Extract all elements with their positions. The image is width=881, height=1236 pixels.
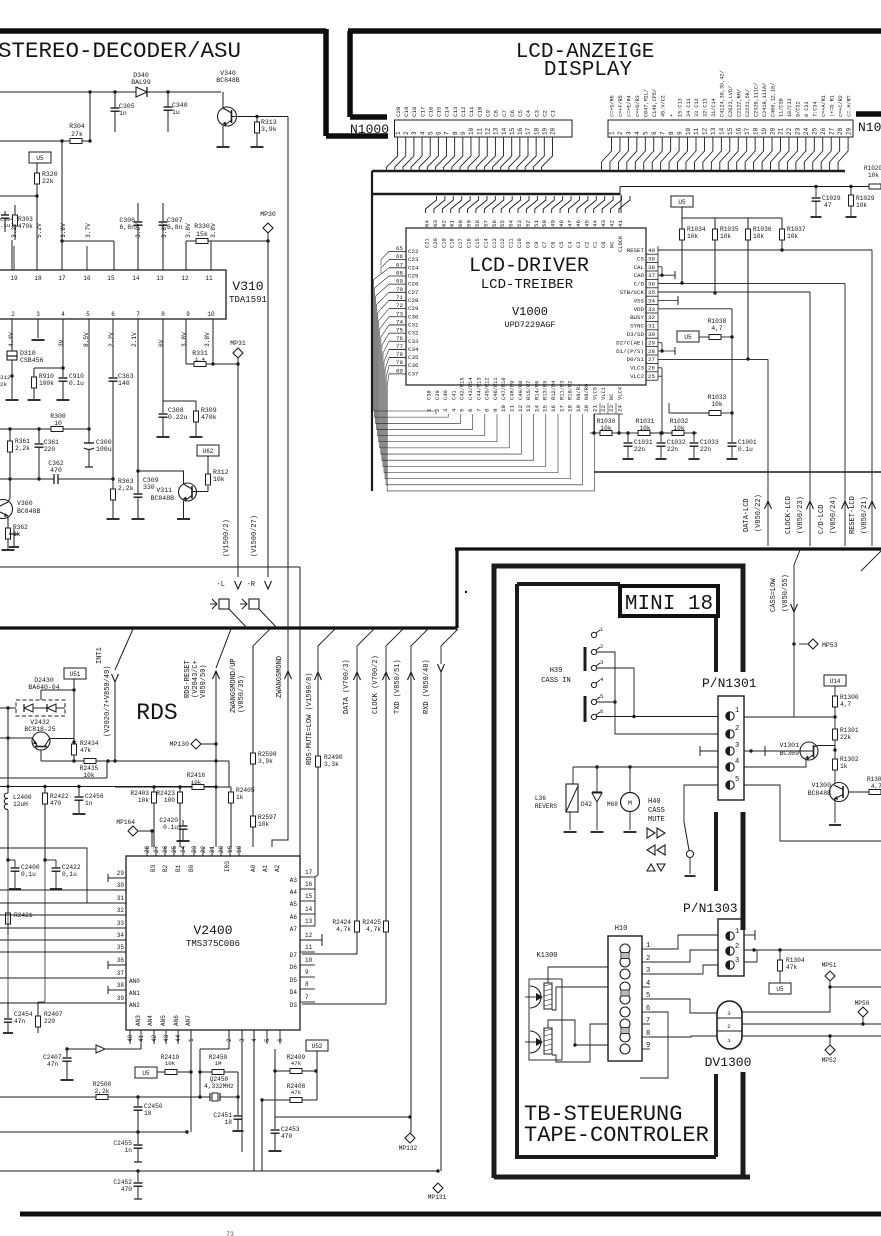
svg-text:C2454: C2454	[14, 1011, 33, 1018]
svg-text:AN7: AN7	[185, 1015, 192, 1026]
svg-text:R330: R330	[194, 223, 210, 230]
svg-text:c=+A/R1: c=+A/R1	[821, 95, 827, 117]
svg-text:24: 24	[180, 845, 187, 853]
svg-text:67: 67	[396, 261, 403, 268]
svg-text:C6: C6	[509, 110, 516, 117]
wire pin10 vertical	[212, 319, 214, 364]
svg-text:2,2k: 2,2k	[15, 445, 30, 452]
svg-text:NC: NC	[609, 394, 615, 400]
svg-text:38: 38	[648, 264, 655, 271]
svg-text:4,7k: 4,7k	[336, 926, 351, 933]
svg-text:4,7k: 4,7k	[366, 926, 381, 933]
resistor R2405 1k	[230, 787, 232, 792]
ground R363	[107, 518, 120, 520]
svg-text:RDS-RESET: RDS-RESET	[184, 660, 192, 698]
resistor R331 1.4	[186, 363, 194, 365]
wire U51 to D2430 junction	[73, 679, 75, 761]
resistor R2403 10k	[153, 787, 155, 792]
svg-text:18: 18	[34, 275, 42, 282]
wire H10 pin6 net	[640, 1012, 668, 1078]
wire pin12 stub	[300, 939, 322, 941]
svg-text:64: 64	[424, 220, 431, 227]
wire H10 pin2 to P/N1303 pin2	[650, 950, 718, 962]
svg-text:ZWANGSMOND/UP: ZWANGSMOND/UP	[230, 658, 238, 713]
svg-text:58: 58	[474, 220, 481, 227]
resistor R910 100k	[33, 368, 35, 377]
U5 box above R1034	[671, 196, 693, 207]
svg-text:MP31: MP31	[230, 340, 246, 347]
svg-text:11: 11	[205, 275, 213, 282]
svg-text:C13: C13	[452, 106, 459, 117]
svg-text:22n: 22n	[667, 446, 678, 453]
svg-text:0,1u: 0,1u	[62, 871, 77, 878]
svg-text:C305: C305	[119, 103, 135, 110]
svg-text:C11: C11	[509, 238, 515, 248]
tape symbol play	[647, 828, 655, 838]
svg-text:R1300: R1300	[840, 694, 859, 701]
svg-text:IRG: IRG	[224, 861, 231, 872]
wire fan N1000-1 to LCD box	[387, 137, 398, 171]
svg-text:NC: NC	[610, 242, 616, 248]
wire MP30 net vertical x=268 down	[267, 241, 269, 577]
svg-text:19: 19	[227, 845, 234, 853]
wire pin19 vertical	[11, 240, 13, 270]
MINI18 inner border	[517, 582, 620, 586]
ground C308	[157, 436, 170, 438]
svg-text:5: 5	[459, 408, 466, 412]
svg-text:11/C30: 11/C30	[779, 98, 785, 117]
H39 contact bar 2	[584, 696, 587, 722]
svg-text:C31: C31	[408, 321, 419, 328]
U51 box	[64, 668, 86, 679]
svg-text:10k: 10k	[787, 233, 798, 240]
svg-text:220: 220	[44, 1018, 55, 1025]
wire P/N1303 pin2 right net	[744, 949, 881, 951]
svg-text:79: 79	[396, 359, 403, 366]
wire: section divider horizontal left	[0, 626, 457, 629]
svg-text:R14/R6: R14/R6	[534, 381, 540, 400]
svg-text:MP131: MP131	[428, 1194, 447, 1201]
svg-text:B2: B2	[162, 864, 169, 872]
svg-text:33: 33	[117, 920, 125, 927]
svg-text:U5: U5	[776, 986, 784, 993]
svg-text:C2453: C2453	[281, 1126, 300, 1133]
wire main horizontal y=92	[0, 91, 221, 93]
svg-text:14: 14	[305, 906, 313, 913]
svg-text:3.8V: 3.8V	[204, 332, 211, 347]
resistor R312 10k	[207, 456, 209, 474]
U52 box	[306, 1040, 328, 1051]
svg-text:C48/R9: C48/R9	[510, 381, 516, 400]
svg-text:47k: 47k	[80, 747, 91, 754]
wire V340 emitter to ground	[222, 126, 224, 146]
resistor R1304 47k	[779, 950, 781, 960]
svg-text:C19: C19	[403, 106, 410, 117]
resistor R2423 100	[179, 787, 181, 792]
capacitor C308 0.22u	[162, 401, 164, 413]
svg-text:c=+G/R6: c=+G/R6	[610, 95, 616, 117]
svg-text:R2416: R2416	[187, 772, 206, 779]
wire crystal verticals	[228, 1030, 230, 1049]
U5 box top-left	[29, 152, 51, 163]
svg-text:C2221,5K/: C2221,5K/	[745, 89, 751, 117]
svg-text:1n: 1n	[125, 1147, 133, 1154]
capacitor C1001 0.1u	[731, 413, 733, 442]
svg-text:V340: V340	[220, 70, 236, 77]
wire H39 pin2 to P/N1301 pin2	[597, 652, 719, 734]
svg-text:B0: B0	[188, 864, 195, 872]
svg-text:16: 16	[517, 127, 524, 135]
svg-text:0.22u: 0.22u	[168, 414, 188, 421]
svg-text:1: 1	[646, 942, 650, 950]
svg-text:5: 5	[264, 1038, 271, 1042]
wire pin3 stub ground	[37, 319, 39, 338]
capacitor C363 140 on pin6 net	[112, 319, 114, 377]
svg-text:R2434: R2434	[80, 740, 99, 747]
svg-text:U5: U5	[678, 199, 686, 206]
svg-text:R2435: R2435	[80, 765, 99, 772]
svg-text:5: 5	[643, 131, 650, 135]
transistor V311 BC848B	[179, 483, 197, 501]
svg-text:(V850/24): (V850/24)	[830, 496, 838, 534]
svg-text:68: 68	[396, 269, 403, 276]
svg-text:4: 4	[634, 131, 641, 135]
svg-text:DV1300: DV1300	[705, 1055, 752, 1070]
svg-text:TAPE-CONTROLER: TAPE-CONTROLER	[524, 1123, 709, 1148]
svg-text:23: 23	[795, 127, 802, 135]
svg-text:1: 1	[609, 131, 616, 135]
svg-text:7: 7	[444, 131, 451, 135]
svg-text:C0: C0	[601, 242, 607, 248]
svg-text:470k: 470k	[18, 223, 33, 230]
svg-text:C6: C6	[551, 242, 557, 248]
node junction at 90,92	[88, 90, 91, 93]
U14 box	[824, 675, 846, 686]
K1300 switch 1	[530, 986, 541, 1008]
svg-text:DATA-LCD: DATA-LCD	[743, 498, 751, 532]
wire thin bus y=183 right	[620, 186, 881, 188]
wire CLOCK pin to bus	[620, 194, 622, 213]
wire resistor top bus	[681, 207, 683, 218]
wire: LCD section border stub	[350, 114, 387, 120]
svg-text:17: 17	[305, 869, 313, 876]
resistor R1301 22k	[834, 717, 836, 729]
capacitor C2407 47n	[65, 1047, 68, 1050]
V1000 bottom right pins 21-24 ladder	[599, 403, 601, 414]
svg-text:7: 7	[475, 408, 482, 412]
svg-text:470: 470	[121, 1186, 132, 1193]
svg-text:N10: N10	[858, 120, 881, 135]
wire V1301 collector to R1301 junction	[818, 745, 835, 747]
svg-text:C2320,111C/: C2320,111C/	[753, 83, 759, 117]
svg-text:7: 7	[305, 994, 309, 1001]
svg-text:8: 8	[452, 131, 459, 135]
wire horizontal y=786 supply	[0, 785, 310, 787]
wire D0/S1 net	[658, 358, 768, 360]
svg-text:VLC3: VLC3	[630, 365, 644, 372]
svg-text:37: 37	[648, 272, 655, 279]
svg-text:CASS: CASS	[648, 807, 665, 815]
svg-text:26: 26	[820, 127, 827, 135]
svg-text:11: 11	[305, 944, 313, 951]
svg-text:11: 11	[509, 405, 516, 412]
svg-text:R1035: R1035	[720, 226, 739, 233]
wire K1300 to lower loop	[575, 1045, 640, 1078]
ground R309	[190, 436, 203, 438]
wire CASS-LOW vertical to MP53 and P/N1301	[793, 640, 795, 717]
svg-text:D5: D5	[290, 977, 298, 984]
svg-text:25: 25	[171, 845, 178, 853]
svg-text:2: 2	[727, 1023, 731, 1030]
svg-text:3.8V: 3.8V	[60, 223, 67, 238]
svg-text:C20: C20	[395, 106, 402, 117]
svg-text:1: 1	[426, 408, 433, 412]
svg-text:C307: C307	[167, 217, 183, 224]
resistor R1035 10k	[714, 218, 716, 229]
resistor R313 3.9k	[255, 115, 258, 118]
wire VSS stub	[658, 299, 678, 301]
svg-text:32: 32	[648, 314, 655, 321]
test point MP52	[829, 1036, 831, 1045]
svg-text:N8/R0: N8/R0	[584, 384, 590, 400]
svg-text:3.7V: 3.7V	[85, 223, 92, 238]
svg-text:3,9k: 3,9k	[261, 126, 277, 133]
wire pin4 net down to R910/C910	[62, 319, 64, 368]
svg-text:10k: 10k	[213, 476, 225, 483]
svg-text:16: 16	[305, 881, 313, 888]
svg-text:9: 9	[676, 131, 683, 135]
svg-text:18: 18	[567, 405, 574, 412]
svg-text:33: 33	[648, 306, 655, 313]
svg-text:40: 40	[648, 247, 655, 254]
svg-text:312: 312	[0, 374, 11, 381]
wire left verticals down to C2454 R2407	[7, 860, 9, 1002]
wire pin3 pin4 verticals	[241, 1030, 243, 1152]
resistor R2598 3.9k	[251, 753, 256, 764]
svg-text:6,8n: 6,8n	[119, 224, 135, 231]
svg-text:34: 34	[117, 932, 125, 939]
svg-text:7: 7	[659, 131, 666, 135]
svg-text:AN6: AN6	[173, 1015, 180, 1026]
svg-text:R1037: R1037	[787, 226, 806, 233]
wire diag from R connector to bus	[259, 609, 277, 628]
svg-text:VLC4: VLC4	[617, 387, 623, 400]
wire diag stubs under bus	[253, 629, 270, 646]
capacitor C1033 22n	[693, 433, 695, 442]
wire RDS-RESET down from R2416 junction	[215, 787, 217, 847]
resistor R303 470k	[14, 205, 16, 215]
svg-text:20: 20	[769, 127, 776, 135]
svg-text:RDS-MUTE=LOW (V1590/8): RDS-MUTE=LOW (V1590/8)	[306, 673, 314, 765]
svg-text:BC848B: BC848B	[17, 508, 41, 515]
svg-text:1k: 1k	[840, 763, 848, 770]
wire V1300 emitter ground	[834, 799, 836, 823]
svg-text:39: 39	[117, 995, 125, 1002]
capacitor C305 1n	[114, 92, 116, 108]
ground R313	[251, 146, 264, 148]
svg-text:-L: -L	[217, 581, 225, 589]
MINI18 label box	[620, 586, 718, 616]
svg-text:D2/C(AE): D2/C(AE)	[616, 339, 644, 346]
svg-text:C910: C910	[69, 373, 84, 380]
wire DV1300 pin1 net	[742, 1035, 881, 1037]
svg-text:C2450: C2450	[144, 1103, 163, 1110]
svg-text:C12: C12	[460, 106, 467, 117]
svg-text:12: 12	[181, 275, 189, 282]
test point MP131	[440, 1171, 442, 1183]
svg-text:47k: 47k	[291, 1089, 302, 1096]
H10 contacts	[620, 944, 630, 954]
svg-text:C34: C34	[408, 346, 419, 353]
svg-text:C18: C18	[450, 238, 456, 248]
svg-text:18: 18	[533, 127, 540, 135]
wire R1300 junction	[794, 716, 835, 718]
svg-text:4: 4	[419, 131, 426, 135]
svg-text:K1300: K1300	[536, 952, 557, 960]
svg-text:C20: C20	[433, 238, 439, 248]
svg-text:C14: C14	[483, 238, 489, 248]
wire pin5 vertical to C300	[88, 319, 90, 443]
svg-text:3.8V: 3.8V	[135, 223, 142, 238]
svg-text:R1034: R1034	[687, 226, 706, 233]
svg-text:(V1500/27): (V1500/27)	[251, 515, 259, 557]
svg-text:4: 4	[646, 980, 650, 988]
svg-text:31/C14: 31/C14	[711, 98, 717, 117]
svg-text:C2400: C2400	[21, 864, 40, 871]
svg-text:D4: D4	[290, 989, 298, 996]
resistor R1034 10k	[681, 218, 683, 229]
svg-text:22n: 22n	[700, 446, 711, 453]
svg-text:25: 25	[812, 127, 819, 135]
svg-text:H39: H39	[550, 667, 563, 675]
svg-text:34: 34	[648, 297, 655, 304]
wire H39 pin5 join	[597, 701, 616, 703]
wire P/N1303 pin3 elbow	[744, 950, 757, 962]
op-amp IC V310 TDA1591 body	[0, 270, 226, 319]
svg-text:C1031: C1031	[634, 439, 653, 446]
wire: right border stub over N10	[856, 111, 881, 117]
MINI18 outer border	[494, 566, 743, 672]
svg-text:4: 4	[735, 758, 739, 766]
svg-text:C16: C16	[467, 238, 473, 248]
tiny dot artifact	[465, 591, 467, 593]
svg-text:C33: C33	[408, 338, 419, 345]
svg-text:REVERS: REVERS	[535, 803, 558, 810]
wire y=1117 to MP132	[275, 1116, 410, 1118]
svg-text:R1038: R1038	[708, 318, 727, 325]
svg-text:C5: C5	[559, 242, 565, 248]
svg-text:1u: 1u	[172, 109, 180, 116]
svg-text:UPD7229AGF: UPD7229AGF	[504, 320, 555, 330]
svg-text:C3: C3	[576, 242, 582, 248]
wire RDS-RESET diagonal and arrow	[216, 629, 231, 668]
svg-text:3.8V: 3.8V	[181, 332, 188, 347]
wire VDD net down	[658, 308, 732, 310]
svg-text:C2407: C2407	[43, 1054, 62, 1061]
svg-text:c=+D/R3: c=+D/R3	[635, 95, 641, 117]
svg-text:10: 10	[500, 405, 507, 412]
svg-text:2,2k: 2,2k	[95, 1088, 110, 1095]
svg-text:23: 23	[608, 405, 615, 412]
V1000 chip top pin ladder	[420, 213, 422, 228]
microcontroller V2400 TMS375C006 body	[126, 856, 300, 1030]
capacitor C307 6.8n	[162, 203, 164, 222]
resistor R2597 10k	[251, 816, 256, 827]
capacitor C309 330	[137, 490, 139, 494]
svg-text:10: 10	[685, 127, 692, 135]
svg-text:C47/R10: C47/R10	[501, 377, 507, 400]
svg-text:45.V/C2: 45.V/C2	[660, 95, 666, 117]
svg-text:(V850/22): (V850/22)	[755, 494, 763, 532]
svg-text:2: 2	[11, 311, 15, 318]
svg-text:D340: D340	[133, 72, 149, 79]
svg-text:C23: C23	[408, 256, 419, 263]
svg-text:46: 46	[575, 220, 582, 227]
svg-text:10/C31: 10/C31	[787, 98, 793, 117]
svg-text:C406,12,18/: C406,12,18/	[770, 83, 776, 117]
svg-text:R1302: R1302	[840, 756, 859, 763]
svg-text:6: 6	[111, 311, 115, 318]
svg-text:R1303: R1303	[867, 776, 881, 783]
wire K1300 wiring	[548, 967, 608, 983]
wire diode to V340 base	[147, 91, 221, 93]
svg-text:13: 13	[525, 405, 532, 412]
resistor R309 470k	[195, 401, 197, 411]
wire pin7 vertical long	[137, 319, 139, 490]
svg-text:10: 10	[54, 420, 62, 427]
H39 contact bar 1	[584, 647, 587, 671]
capacitor C1031 22n	[627, 433, 629, 442]
svg-text:INT1: INT1	[96, 647, 104, 664]
svg-text:2: 2	[434, 408, 441, 412]
svg-text:15: 15	[107, 275, 115, 282]
svg-text:C1: C1	[593, 242, 599, 248]
capacitor C340 1u	[167, 92, 169, 107]
svg-text:36: 36	[648, 281, 655, 288]
svg-text:C4: C4	[525, 110, 532, 117]
svg-text:MP130: MP130	[169, 741, 189, 748]
svg-text:L36: L36	[535, 795, 546, 802]
svg-text:5: 5	[86, 311, 90, 318]
svg-text:14: 14	[132, 275, 140, 282]
svg-text:c=+E/R4: c=+E/R4	[627, 95, 633, 117]
svg-text:27k: 27k	[71, 131, 83, 138]
svg-text:470: 470	[50, 800, 61, 807]
svg-text:12: 12	[517, 405, 524, 412]
capacitor C2452 470	[137, 1171, 139, 1182]
svg-text:AN0: AN0	[129, 978, 140, 985]
wire upper box line y=567	[0, 566, 300, 568]
svg-text:C340: C340	[172, 102, 188, 109]
wire RDS-MUTE arrow vertical	[317, 646, 319, 672]
svg-text:5.2V: 5.2V	[36, 223, 43, 238]
svg-text:VDD: VDD	[634, 306, 645, 313]
svg-text:L2400: L2400	[13, 794, 32, 801]
svg-text:Q2450: Q2450	[210, 1076, 229, 1083]
tape symbol eject	[647, 864, 655, 871]
resistor R362 1k	[7, 516, 9, 528]
svg-text:D3/SD: D3/SD	[627, 331, 645, 338]
svg-text:R2597: R2597	[258, 814, 277, 821]
svg-text:CLOCK: CLOCK	[618, 235, 624, 252]
svg-text:6: 6	[651, 131, 658, 135]
svg-text:3: 3	[626, 131, 633, 135]
svg-text:3,3k: 3,3k	[324, 761, 339, 768]
svg-text:MUTE: MUTE	[648, 816, 665, 824]
svg-text:P/N1303: P/N1303	[683, 901, 738, 916]
wire: page bottom border	[20, 1212, 881, 1217]
svg-text:10k: 10k	[753, 233, 764, 240]
